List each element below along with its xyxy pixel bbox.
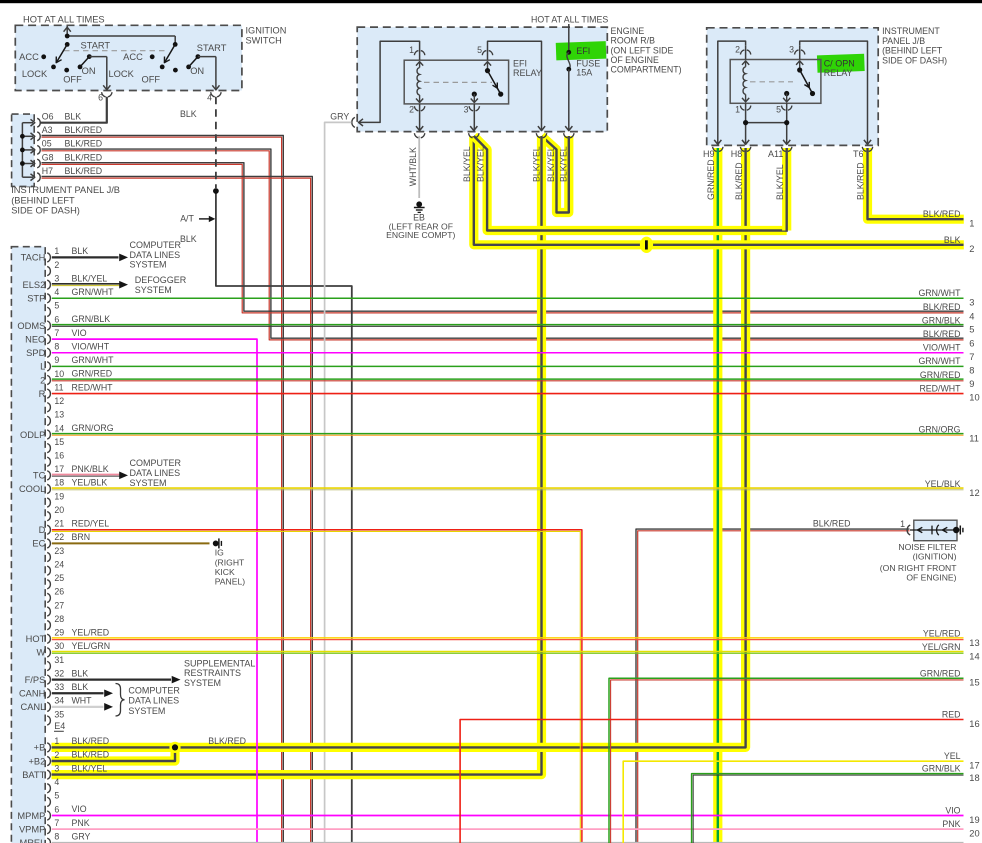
wire pin33 BLK <box>52 682 113 697</box>
ECM pin 26 <box>47 587 64 603</box>
wire pin30 YEL/GRN <box>52 641 964 653</box>
ECM pin 19 <box>47 491 64 507</box>
wire pin6 GRN/BLK <box>52 314 964 326</box>
svg-text:BLK/RED: BLK/RED <box>65 125 103 135</box>
svg-text:7: 7 <box>969 352 974 362</box>
svg-text:TACH: TACH <box>21 253 46 263</box>
svg-text:BLK: BLK <box>180 234 197 244</box>
svg-text:BLK/RED: BLK/RED <box>813 519 851 529</box>
ECM pin 29 HOT <box>26 628 65 645</box>
svg-text:18: 18 <box>969 773 979 783</box>
net 17 YEL right edge <box>944 751 980 770</box>
ignition switch 1 contacts <box>41 54 91 72</box>
svg-text:PANEL): PANEL) <box>215 577 246 587</box>
EFI relay coil pin 1 <box>409 45 425 67</box>
highlight EFI fuse (green) <box>556 41 607 60</box>
net 20 PNK right edge <box>942 819 979 838</box>
svg-text:SYSTEM: SYSTEM <box>184 678 221 688</box>
svg-text:3: 3 <box>464 104 469 114</box>
svg-text:5: 5 <box>477 45 482 55</box>
ECM pin 13 <box>47 410 64 426</box>
svg-text:VIO/WHT: VIO/WHT <box>923 343 961 353</box>
svg-text:13: 13 <box>54 410 64 420</box>
svg-text:6: 6 <box>98 93 103 103</box>
net 13 YEL/RED right edge <box>923 629 980 648</box>
labels BLK/YEL vertical (EFI outputs) <box>462 146 569 182</box>
svg-text:YEL/BLK: YEL/BLK <box>925 479 961 489</box>
ECM connector E4 pin 7 VPMP <box>19 818 59 835</box>
noise filter block <box>914 520 957 541</box>
svg-text:11: 11 <box>54 382 63 392</box>
wire MREL GRY <box>52 831 964 842</box>
svg-text:YEL/RED: YEL/RED <box>923 629 961 639</box>
svg-text:GRN/ORG: GRN/ORG <box>918 424 960 434</box>
svg-text:BLK/RED: BLK/RED <box>72 736 110 746</box>
ECM pin 5 <box>47 301 59 317</box>
label INSTRUMENT PANEL J/B (right) <box>882 26 947 66</box>
svg-text:12: 12 <box>54 396 64 406</box>
EFI relay switch lever <box>488 71 504 97</box>
svg-text:H8: H8 <box>731 149 743 159</box>
ground EB <box>414 201 425 212</box>
svg-text:1: 1 <box>54 736 59 746</box>
ignition switch 1 lever <box>56 44 67 62</box>
EFI relay switch pin 3 <box>464 92 480 132</box>
ECM pin 20 <box>47 505 64 521</box>
C/OPN relay coil pin 2 <box>735 45 751 67</box>
svg-text:(IGNITION): (IGNITION) <box>913 552 957 562</box>
svg-text:25: 25 <box>54 573 64 583</box>
svg-text:24: 24 <box>54 559 64 569</box>
wire pin22 BRN to IG <box>52 532 210 543</box>
svg-text:GRN/WHT: GRN/WHT <box>72 355 115 365</box>
wire 05 BLK/RED <box>42 149 964 338</box>
net 1 BLK/RED right edge <box>923 209 975 228</box>
svg-text:7: 7 <box>54 328 59 338</box>
ECM pin 18 COOL <box>19 478 64 495</box>
label IGNITION SWITCH <box>246 26 287 46</box>
svg-text:GRY: GRY <box>330 111 349 121</box>
net 10 RED/WHT right edge <box>919 383 979 402</box>
highlight wire A11 BLK/YEL <box>782 148 791 231</box>
highlight C/OPN relay (green) <box>817 54 865 73</box>
svg-text:8: 8 <box>969 366 974 376</box>
svg-text:KICK: KICK <box>215 567 235 577</box>
wire pin1 BLK to computer data lines <box>52 246 128 261</box>
ECM pin 35 <box>47 709 64 725</box>
svg-text:SUPPLEMENTAL: SUPPLEMENTAL <box>184 658 255 668</box>
svg-text:GRN/RED: GRN/RED <box>920 370 961 380</box>
J/B pin O6 <box>31 112 82 128</box>
J/B pin H7 <box>31 166 103 182</box>
ignition switch 2 ON-START link <box>189 57 198 67</box>
svg-text:YEL: YEL <box>944 751 961 761</box>
svg-text:14: 14 <box>54 423 64 433</box>
svg-text:BLK/RED: BLK/RED <box>856 162 866 200</box>
connector cups under instrument panel J/B <box>713 147 873 152</box>
inline connector on BLK row2 <box>640 237 653 253</box>
svg-text:VIO/WHT: VIO/WHT <box>72 341 110 351</box>
ECM pin 31 <box>47 655 64 671</box>
wire pin6 BLK to O6 <box>40 97 107 123</box>
svg-text:LOCK: LOCK <box>108 69 134 79</box>
svg-text:SIDE OF DASH): SIDE OF DASH) <box>11 206 80 216</box>
EFI relay link dashes <box>424 81 492 83</box>
svg-text:GRN/WHT: GRN/WHT <box>918 356 961 366</box>
svg-text:RELAY: RELAY <box>513 68 542 78</box>
ECM pin 6 ODMS <box>17 314 59 331</box>
net 11 GRN/ORG right edge <box>918 424 978 443</box>
svg-text:1: 1 <box>735 105 740 115</box>
svg-text:20: 20 <box>54 505 64 515</box>
EFI relay coil <box>417 68 420 96</box>
svg-text:GRN/RED: GRN/RED <box>706 159 716 200</box>
svg-text:16: 16 <box>54 451 64 461</box>
svg-text:F/PS: F/PS <box>25 675 46 685</box>
ECM pin 12 <box>47 396 64 412</box>
C/OPN relay coil <box>743 67 746 95</box>
svg-text:BLK/YEL: BLK/YEL <box>475 146 485 182</box>
svg-text:15: 15 <box>54 437 64 447</box>
svg-text:GRN/RED: GRN/RED <box>72 369 113 379</box>
ECM connector E4 pin 2 +B2 <box>28 750 59 767</box>
svg-text:GRN/BLK: GRN/BLK <box>72 314 111 324</box>
ECM pin 9 L <box>40 355 59 372</box>
svg-text:CANL: CANL <box>20 702 45 712</box>
label E4 <box>54 721 65 732</box>
ECM pin 24 <box>47 559 64 575</box>
C/OPN relay coil pin 1 <box>735 94 751 143</box>
svg-text:6: 6 <box>969 338 974 348</box>
connector pin 4 <box>207 92 221 102</box>
svg-text:BLK/YEL: BLK/YEL <box>775 164 785 200</box>
svg-text:W: W <box>37 648 46 658</box>
instrument panel J/B block (right) <box>707 28 879 146</box>
EFI relay switch pin 5 <box>477 45 493 73</box>
connector pin 6 <box>98 92 112 102</box>
ECM pin 30 W <box>37 641 65 658</box>
svg-text:19: 19 <box>969 815 979 825</box>
net 8 GRN/WHT right edge <box>918 356 974 375</box>
highlight wire EFI pin3 BLK/YEL to A11 <box>474 136 787 231</box>
svg-text:34: 34 <box>54 696 64 706</box>
svg-text:SYSTEM: SYSTEM <box>130 260 167 270</box>
svg-text:CANH: CANH <box>19 689 45 699</box>
label COMPUTER DATA LINES SYSTEM (TC) <box>130 458 182 488</box>
ECM connector E4 pin 5 <box>47 791 59 807</box>
svg-text:STP: STP <box>27 294 45 304</box>
J/B pin 05 <box>31 139 103 155</box>
svg-text:5: 5 <box>969 325 974 335</box>
svg-text:YEL/GRN: YEL/GRN <box>72 641 111 651</box>
svg-text:BLK/RED: BLK/RED <box>923 209 961 219</box>
wire G8 BLK/RED <box>42 163 964 312</box>
labels H9 H8 A11 T6 <box>703 149 864 159</box>
svg-text:TC: TC <box>33 471 46 481</box>
svg-text:RED/YEL: RED/YEL <box>72 519 110 529</box>
svg-text:PNK/BLK: PNK/BLK <box>72 464 109 474</box>
svg-text:LOCK: LOCK <box>22 69 48 79</box>
svg-text:10: 10 <box>54 369 64 379</box>
svg-text:+B: +B <box>34 743 46 753</box>
svg-text:17: 17 <box>54 464 64 474</box>
svg-text:05: 05 <box>42 139 52 149</box>
svg-text:OF ENGINE: OF ENGINE <box>611 55 660 65</box>
brace computer data lines <box>116 684 125 717</box>
wire GRN/RED riser to row 15 <box>609 678 964 843</box>
ECM pin 16 <box>47 451 64 467</box>
svg-text:18: 18 <box>54 478 64 488</box>
wire pin3 BLK/YEL to defogger <box>52 273 128 288</box>
noise filter pin 1 <box>900 519 910 535</box>
net 19 VIO right edge <box>945 806 979 825</box>
svg-text:H9: H9 <box>703 149 715 159</box>
wire RED riser to row 16 <box>460 720 963 843</box>
svg-text:4: 4 <box>54 287 59 297</box>
net 18 GRN/BLK right edge <box>922 764 980 783</box>
svg-text:30: 30 <box>54 641 64 651</box>
svg-text:T6: T6 <box>853 149 864 159</box>
ECM pin 23 <box>47 546 64 562</box>
C/OPN relay switch lever <box>800 70 815 96</box>
engine room R/B block <box>357 27 607 132</box>
svg-text:3: 3 <box>54 273 59 283</box>
highlight wire +B2 BLK/RED <box>52 747 176 761</box>
svg-text:ELS2: ELS2 <box>23 280 46 290</box>
svg-text:VPMP: VPMP <box>19 824 45 834</box>
wire H7 BLK/RED <box>42 176 313 843</box>
svg-text:BLK/RED: BLK/RED <box>923 329 961 339</box>
label COMPUTER DATA LINES SYSTEM (top) <box>130 240 182 270</box>
svg-text:9: 9 <box>969 379 974 389</box>
svg-text:BLK/YEL: BLK/YEL <box>546 146 556 182</box>
svg-text:BLK/RED: BLK/RED <box>65 152 103 162</box>
svg-text:NOISE FILTER: NOISE FILTER <box>898 542 956 552</box>
ECM pin 2 <box>47 260 59 276</box>
svg-text:ACC: ACC <box>19 52 39 62</box>
wire pin11 RED/WHT <box>52 382 964 393</box>
J/B pin G8 <box>31 152 103 168</box>
ECM pin 4 STP <box>27 287 59 304</box>
svg-text:IGNITION: IGNITION <box>246 26 287 36</box>
net 14 YEL/GRN right edge <box>922 642 980 661</box>
svg-text:IG: IG <box>215 548 224 558</box>
svg-text:NEO: NEO <box>25 334 45 344</box>
J/B internal bus <box>20 123 33 178</box>
svg-text:DEFOGGER: DEFOGGER <box>135 275 187 285</box>
svg-text:5: 5 <box>54 791 59 801</box>
svg-text:22: 22 <box>54 532 64 542</box>
svg-text:YEL/BLK: YEL/BLK <box>72 478 108 488</box>
svg-text:WHT: WHT <box>72 696 93 706</box>
svg-text:BLK/RED: BLK/RED <box>734 162 744 200</box>
svg-text:O6: O6 <box>42 112 54 122</box>
C/OPN relay switch pin 3 <box>789 45 805 73</box>
svg-text:21: 21 <box>54 519 64 529</box>
splice IG symbol <box>213 538 222 548</box>
ECM connector E4 pin 4 <box>47 777 59 793</box>
wire VPMP PNK <box>52 818 964 829</box>
svg-text:8: 8 <box>54 342 59 352</box>
junction +B/+B2 <box>169 742 180 753</box>
wire pin4 GRN/WHT <box>52 287 964 298</box>
svg-text:4: 4 <box>207 93 212 103</box>
svg-text:4: 4 <box>969 311 974 321</box>
svg-text:6: 6 <box>54 804 59 814</box>
connector cups under engine room R/B <box>414 133 574 138</box>
ECM pin 33 CANH <box>19 682 64 699</box>
svg-text:GRN/BLK: GRN/BLK <box>922 764 961 774</box>
ECM pin 7 NEO <box>25 328 59 345</box>
svg-text:BLK/RED: BLK/RED <box>72 750 110 760</box>
svg-text:7: 7 <box>54 818 59 828</box>
labels GRN/RED BLK/RED BLK/YEL BLK/RED vertical (J/B outputs) <box>706 159 866 200</box>
wire GRN/BLK riser to row 18 <box>692 774 964 843</box>
svg-text:19: 19 <box>54 491 64 501</box>
svg-text:20: 20 <box>969 828 979 838</box>
svg-text:28: 28 <box>54 614 64 624</box>
C/OPN relay box <box>730 60 821 104</box>
svg-text:SYSTEM: SYSTEM <box>128 706 165 716</box>
highlight wire EFI pin3 BLK/YEL to right edge row2 <box>474 136 964 245</box>
svg-text:OFF: OFF <box>142 75 161 85</box>
svg-text:(ON LEFT SIDE: (ON LEFT SIDE <box>611 45 674 55</box>
label EFI FUSE 15A <box>576 46 600 77</box>
noise filter case ground <box>960 526 963 535</box>
svg-text:11: 11 <box>969 434 979 444</box>
svg-text:1: 1 <box>54 246 59 256</box>
svg-text:BLK/YEL: BLK/YEL <box>532 146 542 182</box>
wire MPMP VIO <box>52 804 964 815</box>
svg-text:H7: H7 <box>42 166 53 176</box>
svg-text:26: 26 <box>54 587 64 597</box>
svg-text:OF ENGINE): OF ENGINE) <box>906 572 956 582</box>
svg-text:+B2: +B2 <box>28 756 45 766</box>
C/OPN relay switch pin 5 <box>776 91 792 144</box>
svg-text:A/T: A/T <box>180 213 194 223</box>
C/OPN relay link dashes <box>750 81 793 83</box>
svg-text:RELAY: RELAY <box>824 68 853 78</box>
svg-text:ENGINE: ENGINE <box>611 26 645 36</box>
ECM pin 3 ELS2 <box>23 273 60 290</box>
noise filter internals <box>910 525 959 535</box>
svg-text:BLK/YEL: BLK/YEL <box>462 146 472 182</box>
ECM connector E4 pin 8 MREL <box>19 832 59 843</box>
svg-text:DATA LINES: DATA LINES <box>130 250 181 260</box>
label NOISE FILTER (IGNITION) <box>880 542 957 582</box>
svg-text:(BEHIND LEFT: (BEHIND LEFT <box>882 46 943 56</box>
svg-text:COMPUTER: COMPUTER <box>130 240 182 250</box>
highlight wire H9 GRN/RED <box>713 148 722 843</box>
svg-text:BLK: BLK <box>944 235 961 245</box>
svg-text:(BEHIND LEFT: (BEHIND LEFT <box>11 195 75 205</box>
svg-text:GRN/ORG: GRN/ORG <box>72 423 114 433</box>
svg-text:HOT AT ALL TIMES: HOT AT ALL TIMES <box>531 14 608 24</box>
svg-text:HOT AT ALL TIMES: HOT AT ALL TIMES <box>23 14 105 24</box>
svg-text:1: 1 <box>900 519 905 529</box>
svg-text:2: 2 <box>735 45 740 55</box>
svg-text:DATA LINES: DATA LINES <box>128 696 179 706</box>
svg-text:BLK: BLK <box>72 246 89 256</box>
svg-text:2: 2 <box>40 375 45 385</box>
ECM pin 1 TACH <box>21 246 60 263</box>
label +B BLK/RED <box>72 736 246 746</box>
wire pin32 BLK to SRS <box>52 668 181 683</box>
ECM pin 14 ODLP <box>20 423 64 440</box>
svg-text:INSTRUMENT PANEL J/B: INSTRUMENT PANEL J/B <box>11 185 120 195</box>
ECM connector block <box>11 247 45 843</box>
svg-text:32: 32 <box>54 668 64 678</box>
svg-text:8: 8 <box>54 832 59 842</box>
svg-text:G8: G8 <box>42 152 54 162</box>
ECM pin 22 EC <box>32 532 64 549</box>
svg-text:L: L <box>40 362 45 372</box>
svg-text:5: 5 <box>776 105 781 115</box>
svg-text:E4: E4 <box>54 721 65 731</box>
wire pin29 YEL/RED <box>52 627 964 639</box>
svg-text:SPD: SPD <box>26 348 45 358</box>
ignition switch 2 contacts <box>150 54 201 72</box>
wire BLK to lower page <box>216 191 352 843</box>
svg-text:2: 2 <box>409 104 414 114</box>
svg-text:EFI: EFI <box>576 46 590 56</box>
svg-text:16: 16 <box>969 719 979 729</box>
svg-text:DATA LINES: DATA LINES <box>130 468 181 478</box>
svg-text:29: 29 <box>54 628 64 638</box>
label COMPUTER DATA LINES SYSTEM (CAN) <box>128 685 180 716</box>
ignition switch 1 labels <box>19 41 110 85</box>
net 2 BLK right edge <box>944 235 975 254</box>
svg-text:13: 13 <box>969 638 979 648</box>
svg-text:COMPUTER: COMPUTER <box>128 685 180 695</box>
svg-text:10: 10 <box>969 393 979 403</box>
svg-text:ACC: ACC <box>123 52 143 62</box>
ECM pin 27 <box>47 600 64 616</box>
svg-text:SWITCH: SWITCH <box>246 36 282 46</box>
wire pin9 GRN/WHT <box>52 355 964 366</box>
svg-text:5: 5 <box>54 301 59 311</box>
svg-text:A3: A3 <box>42 125 53 135</box>
wire YEL riser to row 17 <box>623 761 963 843</box>
svg-text:A11: A11 <box>768 149 783 159</box>
ignition switch 2 labels <box>108 43 226 84</box>
svg-text:1: 1 <box>969 219 974 229</box>
svg-text:SYSTEM: SYSTEM <box>135 285 172 295</box>
svg-text:3: 3 <box>789 45 794 55</box>
label INSTRUMENT PANEL J/B (left) <box>11 185 120 216</box>
wire ignition feed <box>64 26 178 47</box>
svg-text:SIDE OF DASH): SIDE OF DASH) <box>882 56 947 66</box>
label EFI RELAY <box>513 59 542 78</box>
highlight wire H8 BLK/RED to +B <box>52 148 746 747</box>
wire pin8 VIO/WHT <box>52 341 964 352</box>
svg-text:BATT: BATT <box>22 770 45 780</box>
svg-text:17: 17 <box>969 761 979 771</box>
svg-text:ON: ON <box>190 66 204 76</box>
svg-text:YEL/GRN: YEL/GRN <box>922 642 961 652</box>
svg-text:ON: ON <box>82 66 96 76</box>
svg-text:BLK/YEL: BLK/YEL <box>72 763 108 773</box>
svg-text:BLK: BLK <box>65 112 82 122</box>
svg-text:ODMS: ODMS <box>17 321 45 331</box>
wire pin34 WHT <box>52 696 113 711</box>
svg-text:3: 3 <box>54 763 59 773</box>
svg-text:SYSTEM: SYSTEM <box>130 478 167 488</box>
svg-text:WHT/BLK: WHT/BLK <box>408 147 418 186</box>
junction dot A/T <box>213 188 219 194</box>
top border bar <box>0 0 982 3</box>
wire BLK/RED to noise filter <box>636 529 910 843</box>
